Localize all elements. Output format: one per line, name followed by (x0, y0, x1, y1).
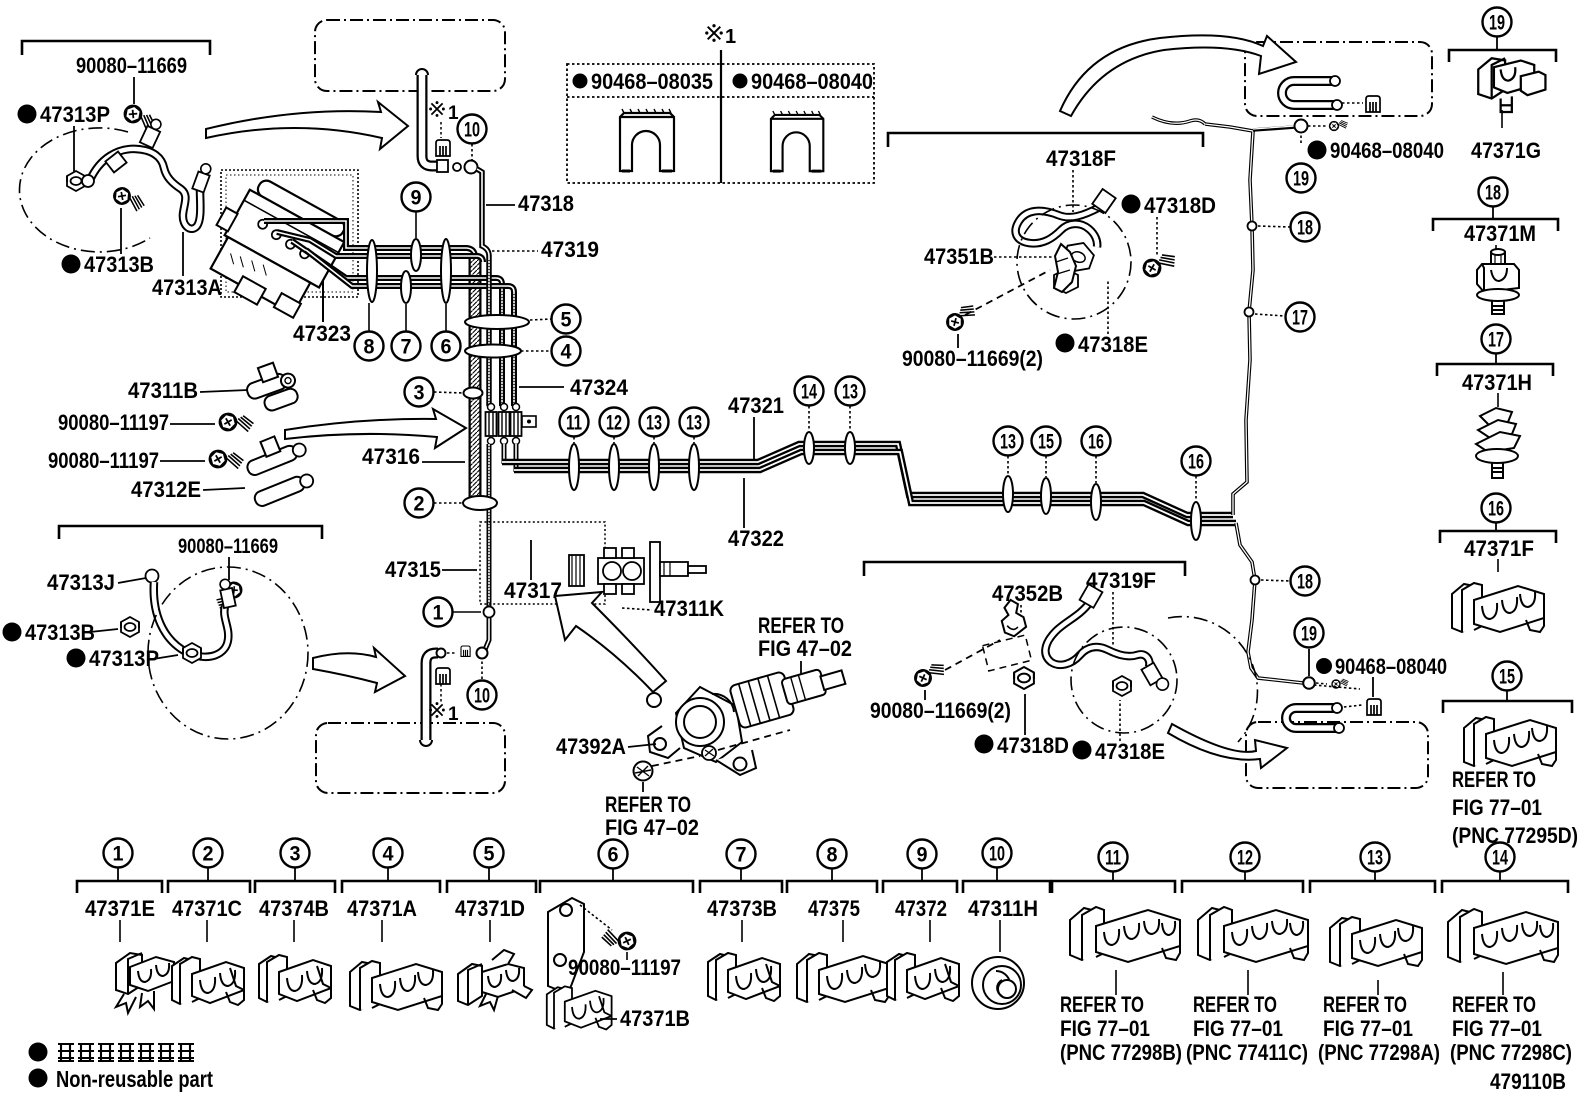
svg-text:47318E: 47318E (1095, 739, 1165, 764)
svg-text:47319: 47319 (541, 237, 599, 262)
svg-text:19: 19 (1301, 623, 1317, 646)
svg-text:FIG 47–02: FIG 47–02 (605, 815, 699, 840)
svg-text:13: 13 (1367, 847, 1383, 870)
svg-text:47373B: 47373B (707, 896, 777, 921)
svg-text:17: 17 (1488, 329, 1504, 352)
svg-text:47311B: 47311B (128, 378, 198, 403)
svg-text:5: 5 (484, 843, 495, 866)
svg-text:14: 14 (801, 381, 817, 404)
svg-text:15: 15 (1038, 431, 1054, 454)
svg-text:17: 17 (1292, 307, 1308, 330)
svg-text:1: 1 (113, 843, 124, 866)
svg-text:16: 16 (1488, 498, 1504, 521)
svg-text:90080–11669: 90080–11669 (76, 53, 187, 78)
svg-text:47315: 47315 (385, 557, 441, 582)
svg-text:13: 13 (842, 381, 858, 404)
svg-text:(PNC 77411C): (PNC 77411C) (1186, 1040, 1308, 1065)
svg-text:47323: 47323 (293, 321, 351, 346)
svg-text:47371B: 47371B (620, 1006, 690, 1031)
svg-text:90468–08040: 90468–08040 (1335, 654, 1447, 679)
svg-text:19: 19 (1489, 12, 1505, 35)
svg-text:47372: 47372 (895, 896, 947, 921)
svg-text:Non-reusable part: Non-reusable part (56, 1066, 213, 1092)
svg-text:REFER TO: REFER TO (1323, 992, 1407, 1017)
svg-text:90468–08035: 90468–08035 (591, 69, 713, 94)
svg-text:10: 10 (989, 843, 1005, 866)
svg-text:16: 16 (1188, 451, 1204, 474)
svg-text:47352B: 47352B (992, 581, 1063, 606)
svg-text:FIG 47–02: FIG 47–02 (758, 636, 852, 661)
svg-text:18: 18 (1297, 217, 1313, 240)
svg-text:REFER TO: REFER TO (758, 613, 844, 638)
svg-text:11: 11 (1105, 847, 1121, 870)
svg-text:47313J: 47313J (47, 570, 115, 595)
svg-text:8: 8 (827, 844, 838, 867)
svg-text:1: 1 (725, 26, 736, 48)
svg-text:2: 2 (414, 493, 425, 516)
svg-text:7: 7 (736, 844, 747, 867)
svg-text:47313P: 47313P (40, 102, 110, 127)
svg-text:REFER TO: REFER TO (1193, 992, 1277, 1017)
svg-text:47371M: 47371M (1464, 221, 1536, 246)
svg-text:90468–08040: 90468–08040 (1330, 138, 1444, 163)
svg-text:2: 2 (203, 843, 214, 866)
svg-text:90080–11669(2): 90080–11669(2) (902, 346, 1043, 371)
svg-text:11: 11 (566, 412, 582, 435)
svg-text:10: 10 (464, 119, 480, 142)
svg-text:12: 12 (1237, 847, 1253, 870)
svg-text:3: 3 (290, 843, 301, 866)
svg-text:1: 1 (448, 103, 459, 124)
svg-text:47371H: 47371H (1462, 370, 1532, 395)
svg-text:REFER TO: REFER TO (1060, 992, 1144, 1017)
svg-text:FIG 77–01: FIG 77–01 (1452, 795, 1542, 820)
svg-text:18: 18 (1485, 182, 1501, 205)
svg-text:47351B: 47351B (924, 244, 994, 269)
svg-text:9: 9 (411, 187, 422, 210)
svg-text:10: 10 (474, 685, 490, 708)
svg-text:(PNC 77298A): (PNC 77298A) (1318, 1040, 1440, 1065)
svg-text:9: 9 (917, 844, 928, 867)
svg-text:16: 16 (1088, 431, 1104, 454)
svg-text:47317: 47317 (504, 578, 562, 603)
svg-text:47312E: 47312E (131, 477, 201, 502)
svg-text:90080–11669: 90080–11669 (178, 535, 278, 558)
svg-text:90080–11669(2): 90080–11669(2) (870, 698, 1011, 723)
svg-text:13: 13 (686, 412, 702, 435)
svg-text:REFER TO: REFER TO (1452, 992, 1536, 1017)
svg-text:47374B: 47374B (259, 896, 329, 921)
svg-text:47371G: 47371G (1471, 138, 1541, 163)
svg-text:6: 6 (608, 844, 619, 867)
svg-text:(PNC 77298C): (PNC 77298C) (1450, 1040, 1572, 1065)
svg-text:47375: 47375 (808, 896, 860, 921)
svg-text:47318E: 47318E (1078, 332, 1148, 357)
svg-text:47371F: 47371F (1464, 536, 1534, 561)
svg-text:3: 3 (414, 382, 425, 405)
svg-text:13: 13 (1000, 431, 1016, 454)
svg-text:47311H: 47311H (968, 896, 1038, 921)
svg-text:47371E: 47371E (85, 896, 155, 921)
svg-text:479110B: 479110B (1490, 1069, 1566, 1094)
svg-text:14: 14 (1492, 847, 1508, 870)
svg-text:1: 1 (448, 704, 459, 725)
svg-text:90468–08040: 90468–08040 (751, 69, 873, 94)
svg-text:47392A: 47392A (556, 734, 626, 759)
svg-text:4: 4 (561, 341, 572, 364)
svg-text:47313A: 47313A (152, 275, 222, 300)
svg-text:90080–11197: 90080–11197 (58, 410, 169, 435)
svg-text:47318D: 47318D (997, 733, 1069, 758)
svg-text:(PNC 77298B): (PNC 77298B) (1060, 1040, 1182, 1065)
svg-text:13: 13 (646, 412, 662, 435)
svg-text:8: 8 (364, 336, 375, 359)
svg-text:47311K: 47311K (654, 596, 724, 621)
svg-text:12: 12 (606, 412, 622, 435)
svg-text:(PNC 77295D): (PNC 77295D) (1452, 823, 1578, 848)
svg-text:18: 18 (1297, 571, 1313, 594)
svg-text:FIG 77–01: FIG 77–01 (1193, 1016, 1283, 1041)
svg-text:47371C: 47371C (172, 896, 242, 921)
svg-text:47316: 47316 (362, 444, 420, 469)
svg-text:1: 1 (433, 602, 444, 625)
svg-text:47321: 47321 (728, 393, 784, 418)
svg-text:7: 7 (401, 336, 412, 359)
svg-text:47318D: 47318D (1144, 193, 1216, 218)
svg-text:19: 19 (1293, 168, 1309, 191)
svg-text:90080–11197: 90080–11197 (568, 955, 681, 980)
svg-text:REFER TO: REFER TO (1452, 767, 1536, 792)
svg-text:90080–11197: 90080–11197 (48, 448, 159, 473)
svg-text:FIG 77–01: FIG 77–01 (1323, 1016, 1413, 1041)
svg-text:FIG 77–01: FIG 77–01 (1060, 1016, 1150, 1041)
svg-text:6: 6 (441, 336, 452, 359)
svg-text:47371D: 47371D (455, 896, 525, 921)
svg-text:FIG 77–01: FIG 77–01 (1452, 1016, 1542, 1041)
svg-text:47313B: 47313B (84, 252, 154, 277)
svg-text:47371A: 47371A (347, 896, 417, 921)
svg-text:47318F: 47318F (1046, 146, 1116, 171)
svg-text:47318: 47318 (518, 191, 574, 216)
svg-text:47313B: 47313B (25, 620, 95, 645)
svg-text:5: 5 (561, 309, 572, 332)
svg-text:15: 15 (1499, 666, 1515, 689)
svg-text:REFER TO: REFER TO (605, 792, 691, 817)
svg-text:47324: 47324 (570, 375, 629, 400)
svg-text:4: 4 (383, 843, 394, 866)
svg-text:47322: 47322 (728, 526, 784, 551)
